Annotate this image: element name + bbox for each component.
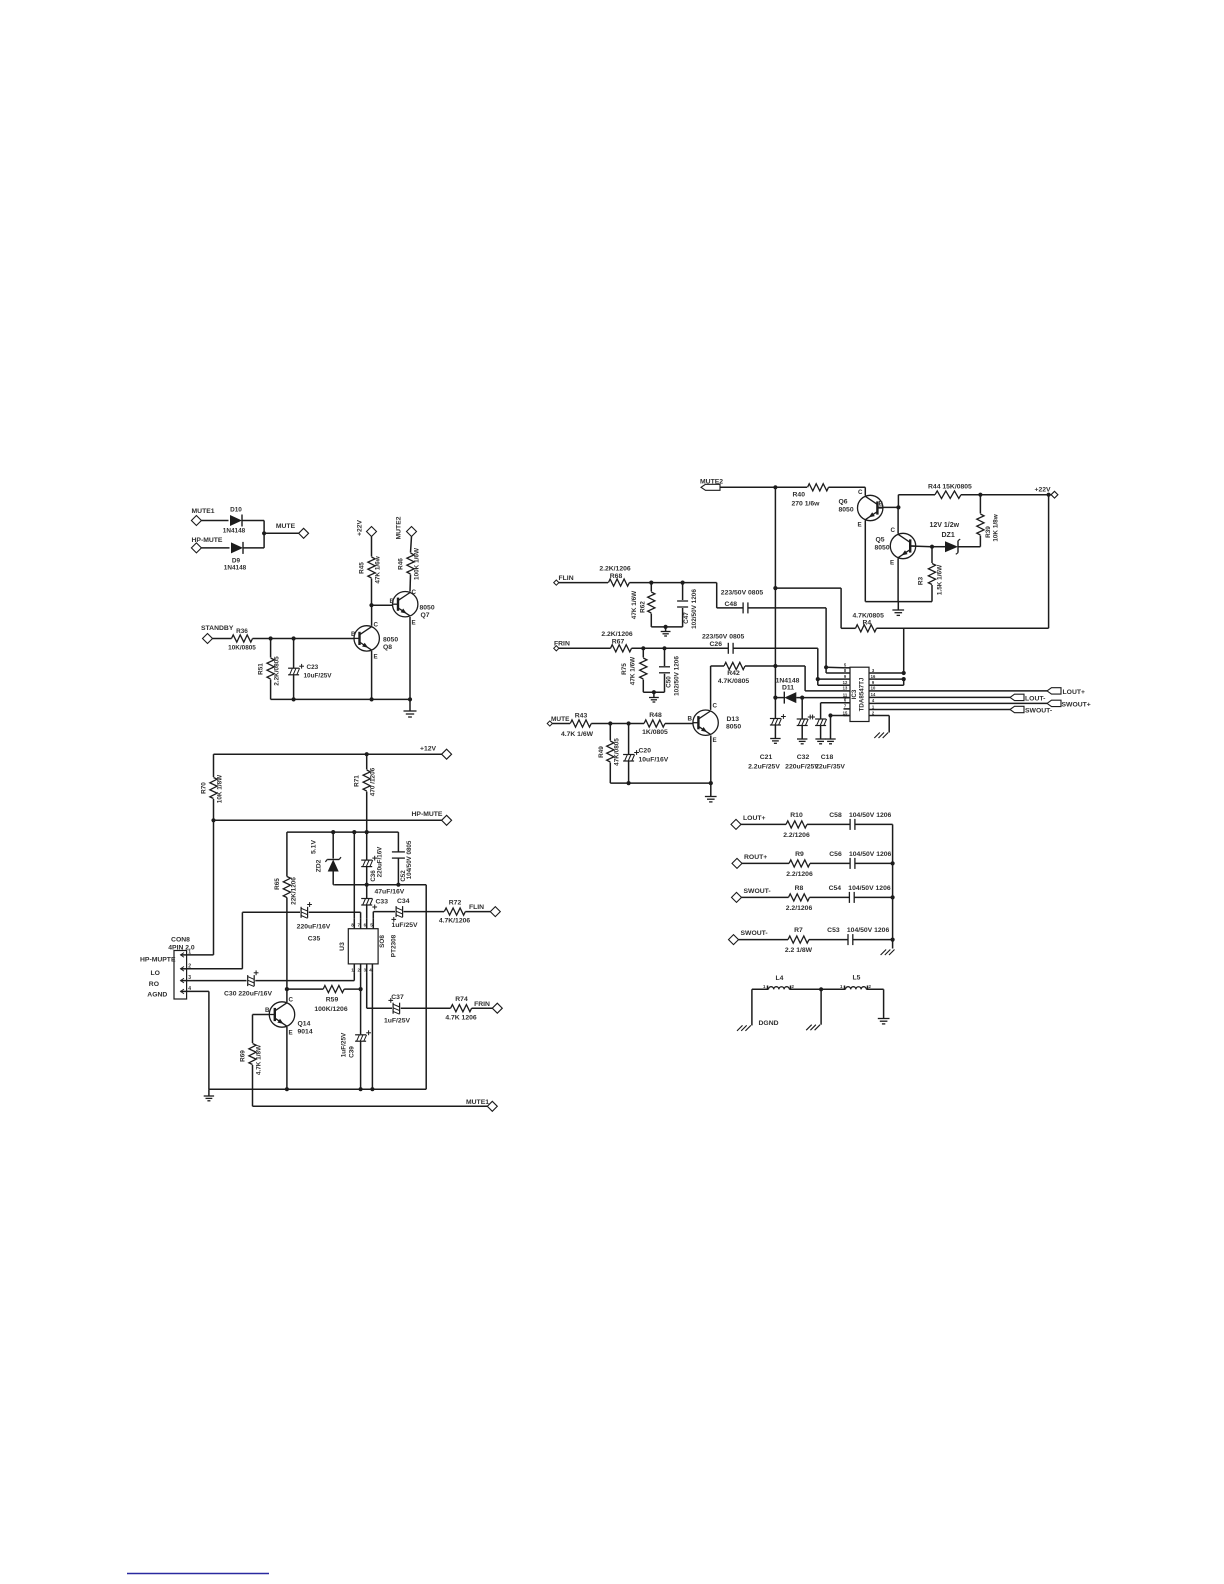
port FLIN (right sch) [554, 580, 559, 585]
pin label B (Q14) [265, 1007, 270, 1014]
svg-text:R71: R71 [354, 775, 361, 787]
pin stub U3 pin6 [366, 919, 368, 929]
svg-text:MUTE: MUTE [551, 716, 570, 723]
tag SWOUT+ [1047, 700, 1061, 706]
ground (C32) [797, 739, 807, 744]
pin number 9 (IC3 left) [844, 674, 847, 679]
label 220uF/16V (C35) [297, 924, 331, 931]
wire C33 to U3 pin6 [366, 905, 368, 919]
label R59 [326, 997, 339, 1004]
pin number 7 (IC3 left) [844, 704, 847, 709]
pin label C (Q14) [289, 997, 294, 1004]
inductor L5 [846, 987, 867, 990]
pin arrow CON8 pin4 [181, 989, 187, 994]
svg-text:C32: C32 [797, 754, 810, 761]
net label FRIN (right sch) [554, 641, 570, 648]
label C32 [797, 754, 810, 761]
capacitor C30 [248, 970, 259, 986]
svg-text:MUTE1: MUTE1 [466, 1099, 489, 1106]
wire ZD2 top lead [332, 832, 334, 858]
op-amp U3 (PT2308 SO8) [348, 929, 378, 964]
label 8050 (Q8) [383, 637, 398, 644]
label R69 [240, 1050, 247, 1062]
wire C54 to bus [854, 896, 892, 898]
svg-text:10uF/25V: 10uF/25V [304, 673, 333, 680]
pin stub U3 pin1 [353, 964, 355, 973]
junction R71/+12V rail [365, 752, 369, 756]
junction D11 cathode node [773, 696, 777, 700]
svg-text:47K 1/6w: 47K 1/6w [375, 556, 382, 583]
capacitor C33 [361, 899, 377, 910]
wire R42 left to Q13 collector [711, 666, 724, 710]
capacitor C53 [848, 934, 853, 945]
svg-text:C33: C33 [376, 899, 389, 906]
ground (L5 right) [878, 1019, 890, 1024]
footer blue rule [127, 1573, 269, 1575]
port ROUT+ (zobel) [732, 858, 742, 868]
pin label B (Q6) [879, 501, 884, 508]
label 100K/1206 (R59) [314, 1006, 347, 1013]
label C18 [821, 754, 834, 761]
svg-text:C30 220uF/16V: C30 220uF/16V [224, 990, 272, 997]
resistor R4 [856, 625, 877, 632]
wire FLIN row (C34 row) [373, 912, 444, 919]
svg-text:8050: 8050 [420, 605, 435, 612]
label 2.2/1206 (R9) [786, 871, 813, 878]
svg-text:C23: C23 [307, 664, 319, 671]
svg-text:C58: C58 [829, 812, 842, 819]
wire FLIN to R68 [559, 582, 608, 584]
wire R59 right lead [344, 988, 360, 990]
junction R51 top [269, 636, 273, 640]
label C52 [400, 870, 407, 882]
pin number 2 (L4) [792, 984, 795, 989]
wire R4 node riser [903, 628, 905, 673]
junction Q7 emitter/bus [408, 697, 412, 701]
wire R39 to DZ1 [958, 536, 980, 547]
label R36 [236, 628, 248, 635]
svg-text:104/50V 0805: 104/50V 0805 [406, 840, 413, 879]
svg-text:102/50V 1206: 102/50V 1206 [674, 656, 681, 696]
pin number 4 (CON8) [188, 986, 191, 992]
wire ROUT+ to R9 [742, 862, 789, 864]
svg-text:PT2308: PT2308 [391, 934, 398, 957]
ground (C21) [770, 739, 780, 744]
pin label B (Q8) [351, 631, 356, 638]
pin number 12 (IC3 left) [843, 680, 848, 685]
label 4PIN 2.0 [168, 945, 195, 952]
svg-text:R62: R62 [640, 601, 647, 613]
junction C39/bus [359, 1087, 363, 1091]
label 4.7K/1206 (R72) [439, 918, 471, 925]
svg-text:E: E [374, 654, 378, 661]
svg-text:E: E [289, 1030, 293, 1037]
junction pin15 node [828, 713, 832, 717]
svg-text:STANDBY: STANDBY [201, 625, 234, 632]
label 270 1/6w (R40) [792, 501, 821, 508]
resistor R68 [608, 579, 629, 586]
label C47 [683, 612, 690, 624]
transistor Q6 [858, 495, 883, 520]
wire R51 top lead [270, 639, 272, 658]
junction L4/L5 [819, 987, 823, 991]
svg-text:4.7K/0805: 4.7K/0805 [718, 678, 750, 685]
label 1uF/25V (C34) [392, 922, 419, 929]
port MUTE (right sch) [547, 721, 552, 726]
ground (FLIN filter) [661, 627, 671, 636]
pin label C (Q5) [891, 527, 896, 534]
label Q5 [876, 537, 885, 544]
pin number 7 (U3) [358, 923, 361, 928]
wire pin2 to C39 [360, 989, 362, 1034]
svg-text:MUTE: MUTE [276, 523, 296, 530]
wire C53 to bus [853, 939, 893, 941]
label C54 [829, 885, 842, 892]
label 4.7K 1/6W (R43) [561, 731, 594, 738]
wire Q13 gnd stem [710, 783, 712, 796]
resistor R43 [570, 720, 591, 727]
wire SWOUT- to R8 [742, 896, 789, 898]
wire R74 to FRIN [472, 1007, 493, 1009]
label 104/50V 1206 (C58) [849, 812, 892, 819]
label 2.2K/0805 (R51) [274, 656, 281, 686]
svg-text:22uF/35V: 22uF/35V [815, 764, 845, 771]
wire IC3 pin4 to SWOUT+ [876, 702, 1048, 704]
label R43 [575, 713, 588, 720]
wire MUTE1 row [253, 1105, 488, 1107]
label R46 [398, 558, 405, 570]
svg-text:2.2/1206: 2.2/1206 [786, 905, 813, 912]
wire IC3 right pin16 to R4 node [876, 678, 904, 680]
wire R44 left lead [898, 495, 935, 508]
svg-text:104/50V 1206: 104/50V 1206 [849, 812, 892, 819]
label R39 [985, 526, 992, 538]
junction R62 top [649, 581, 653, 585]
wire FRIN to R67 [559, 647, 611, 649]
wire R4 to +22V riser [877, 495, 1049, 629]
resistor R74 [451, 1005, 472, 1012]
net label MUTE2 (left) [396, 516, 403, 539]
junction ZD2/top rail [331, 830, 335, 834]
svg-text:100K/1206: 100K/1206 [314, 1006, 347, 1013]
junction pin4/bus [370, 1087, 374, 1091]
svg-text:R49: R49 [598, 746, 605, 758]
pin stub IC3 left 9 [844, 678, 851, 680]
pin number 10 (IC3 right) [871, 686, 876, 691]
label 104/50V 1206 (C54) [848, 885, 891, 892]
svg-text:E: E [412, 620, 416, 627]
capacitor C50 [659, 667, 670, 673]
wire D11 anode to IC3 [796, 697, 849, 699]
label R40 [793, 492, 806, 499]
wire IC3 pin1 to SWOUT- [876, 709, 1011, 711]
pin stub IC3 left 8 [844, 672, 851, 674]
net label LOUT+ (tag) [1063, 689, 1085, 696]
label 4.7K 1206 (R74) [445, 1015, 477, 1022]
pin number 3 (CON8) [188, 975, 191, 981]
wire IC3 right pin9 to R4 node [876, 679, 904, 685]
label U3 [339, 942, 346, 951]
wire IC3 left pin9 link [818, 678, 844, 680]
capacitor C34 [391, 906, 402, 922]
svg-text:C56: C56 [829, 851, 842, 858]
port SWOUT- (zobel) [729, 935, 739, 945]
label 102/50V 1206 (C50) [674, 656, 681, 696]
svg-text:10K 1/8W: 10K 1/8W [217, 774, 224, 803]
svg-text:C18: C18 [821, 754, 834, 761]
port SWOUT- (zobel) [732, 892, 742, 902]
resistor R71 [363, 770, 370, 791]
wire C47 bottom lead [682, 608, 684, 627]
junction C36 bottom/mid rail [365, 883, 369, 887]
svg-text:47K 1/6W: 47K 1/6W [631, 590, 638, 619]
junction C23 top [292, 636, 296, 640]
ground (zobel bus, chassis) [881, 950, 895, 956]
wire L4 left down [751, 989, 753, 1025]
label C35 [308, 936, 321, 943]
label 2.2/1206 (R10) [783, 832, 810, 839]
wire STANDBY to R36 [213, 638, 232, 640]
wire C23 bottom lead [293, 675, 295, 700]
wire Q6 emitter down [865, 521, 898, 602]
wire MUTE2 vertical to D11 [774, 666, 776, 698]
svg-text:8050: 8050 [839, 507, 854, 514]
label R4 [863, 620, 872, 627]
net label +22V (left) [357, 520, 364, 537]
wire C33 top lead [366, 885, 368, 899]
svg-text:22K/1206: 22K/1206 [291, 877, 298, 905]
zener ZD2 [325, 857, 341, 871]
label C23 [307, 664, 319, 671]
label R70 [201, 782, 208, 794]
wire C35 row [242, 912, 360, 918]
pin number 2 (IC3 right) [872, 710, 875, 715]
svg-text:C26: C26 [710, 641, 723, 648]
wire R69 to MUTE1 row [252, 1065, 254, 1106]
resistor R8 [789, 894, 810, 901]
wire L5 right lead [866, 986, 883, 990]
svg-text:B: B [390, 598, 395, 605]
net label +12V [420, 746, 437, 753]
label R10 [790, 812, 803, 819]
svg-text:2.2K/1206: 2.2K/1206 [599, 566, 631, 573]
svg-text:D11: D11 [782, 685, 794, 692]
pin stub IC3 left 13 [844, 690, 851, 692]
pin number 6 (IC3 left) [844, 698, 847, 703]
capacitor C58 [850, 819, 855, 830]
pin stub IC3 left 7 [844, 708, 851, 710]
pin stub IC3 right 9 [869, 684, 876, 686]
wire C21 top lead [774, 698, 776, 719]
wire U3 pin4 to bottom bus [371, 972, 373, 1089]
wire MUTE2 vertical [774, 487, 776, 666]
wire pin8 riser [353, 832, 355, 919]
svg-text:223/50V 0805: 223/50V 0805 [702, 634, 745, 641]
wire R8 to C54 [810, 896, 850, 898]
svg-text:C53: C53 [827, 927, 840, 934]
transistor Q13 (D13) [693, 710, 718, 735]
wire IC3 left pin8 link [826, 667, 843, 673]
connector CON8 [174, 951, 187, 1000]
label R3 [918, 576, 925, 585]
pin stub IC3 right 3 [869, 672, 876, 674]
svg-text:104/50V 1206: 104/50V 1206 [848, 885, 891, 892]
label 10K 1/8W (R70) [217, 774, 224, 803]
port MUTE1 [191, 516, 201, 526]
junction C48/IC3 pins 5-8 [824, 665, 828, 669]
wire bottom analog bus [209, 1088, 426, 1090]
svg-text:100K 1/6W: 100K 1/6W [414, 547, 421, 580]
port +12V [442, 749, 452, 759]
label 5.1V (ZD2) [311, 840, 318, 854]
svg-text:10uF/16V: 10uF/16V [639, 757, 669, 764]
svg-text:SO8: SO8 [379, 935, 386, 948]
svg-text:+22V: +22V [357, 520, 364, 537]
svg-text:470 /1206: 470 /1206 [370, 767, 377, 796]
svg-text:R72: R72 [449, 900, 462, 907]
label C20 [639, 748, 652, 755]
pin stub U3 pin8 [353, 919, 355, 929]
wire D10 to node [243, 521, 265, 534]
net label FLIN (right sch) [559, 575, 574, 582]
resistor R67 [611, 645, 632, 652]
svg-text:4.7K 1/6W: 4.7K 1/6W [561, 731, 594, 738]
capacitor C18 [810, 715, 826, 726]
label 104/50V 1206 (C53) [847, 927, 890, 934]
net label SWOUT- (zobel) [741, 930, 768, 937]
wire HP-MUTE rail [214, 819, 442, 821]
ground (FRIN filter) [649, 692, 659, 702]
junction Q14/bus [285, 1087, 289, 1091]
svg-text:C54: C54 [829, 885, 842, 892]
pin arrow CON8 pin2 [181, 967, 187, 972]
wire C36 bottom lead [366, 867, 368, 885]
junction C26/IC3 pin9 [816, 677, 820, 681]
pin number 1 (L5) [840, 984, 843, 989]
capacitor C26 [728, 643, 733, 654]
wire R67 to node [632, 647, 665, 649]
svg-text:TDA8547TJ: TDA8547TJ [859, 677, 866, 711]
junction SWOUT-/bus [891, 895, 895, 899]
svg-text:MUTE1: MUTE1 [192, 508, 215, 515]
svg-text:2.2uF/25V: 2.2uF/25V [748, 764, 780, 771]
port FRIN (right sch) [554, 646, 559, 651]
junction C23/bus [292, 697, 296, 701]
label C48 [725, 601, 738, 608]
resistor R72 [444, 908, 465, 915]
label 47K 1/6W (R75) [630, 656, 637, 685]
svg-text:1K/0805: 1K/0805 [642, 729, 668, 736]
svg-text:2.2 1/8W: 2.2 1/8W [785, 947, 813, 954]
junction C20/bus [627, 781, 631, 785]
svg-text:Q14: Q14 [298, 1021, 311, 1028]
junction C20 top [627, 721, 631, 725]
wire R9 to C56 [810, 862, 850, 864]
wire +22V to R45 [371, 537, 373, 557]
net label MUTE [276, 523, 296, 530]
wire C21 to ground [774, 725, 776, 739]
label 1K/0805 (R48) [642, 729, 668, 736]
wire L4 to junction [789, 986, 821, 990]
capacitor C32 [797, 715, 813, 726]
svg-text:C: C [713, 703, 718, 710]
svg-text:223/50V 0805: 223/50V 0805 [721, 590, 764, 597]
label 8050 (Q13) [726, 724, 741, 731]
wire IC3 left pin12 link [818, 679, 844, 685]
resistor R46 [407, 553, 414, 574]
svg-text:E: E [890, 560, 894, 567]
wire C30 to U3 pin1 [255, 972, 354, 980]
pin number 2 (U3) [358, 968, 361, 973]
wire R39 top lead [979, 495, 981, 514]
label 104/50V 0805 (C52) [406, 840, 413, 879]
pin number 15 (IC3 left) [843, 710, 848, 715]
junction MUTE2 vertical [773, 485, 777, 489]
wire Q6 base to node [878, 506, 899, 508]
pin number 1 (U3) [351, 968, 354, 973]
svg-text:8050: 8050 [875, 545, 890, 552]
pin number 13 (IC3 left) [843, 686, 848, 691]
resistor R9 [789, 860, 810, 867]
wire R62 bottom lead [651, 614, 682, 627]
wire R43 to node [591, 723, 644, 725]
label PT2308 (U3) [391, 934, 398, 957]
wire R71 top lead [366, 754, 368, 769]
label D10 [230, 507, 242, 514]
wire CON8 pin1 to HP-MUTE node [187, 820, 214, 955]
wire CON8 pin2 to C35 row [187, 912, 243, 969]
wire R72 to FLIN [465, 911, 490, 913]
svg-text:IC3: IC3 [851, 689, 858, 699]
label 22K/1206 (R65) [291, 877, 298, 905]
pin stub IC3 right 2 [869, 715, 876, 717]
pin stub IC3 left 5 [844, 667, 851, 669]
svg-text:LOUT-: LOUT- [1025, 695, 1045, 702]
diode D11 [784, 692, 796, 704]
svg-text:2.2/1206: 2.2/1206 [786, 871, 813, 878]
svg-text:LOUT+: LOUT+ [1063, 689, 1085, 696]
zener DZ1 [945, 539, 960, 554]
label 9014 (Q14) [298, 1029, 313, 1036]
svg-text:9014: 9014 [298, 1029, 313, 1036]
tag LOUT+ [1047, 688, 1061, 694]
wire L5 right down [883, 989, 885, 1018]
port MUTE [299, 528, 309, 538]
capacitor C35 [301, 902, 312, 918]
wire C20 top lead [628, 724, 630, 755]
svg-text:R44 15K/0805: R44 15K/0805 [928, 484, 972, 491]
wire MUTE2 to R40 [720, 486, 807, 488]
wire C50 bottom lead [664, 674, 666, 692]
label 1uF/25V (C39) [341, 1032, 348, 1057]
resistor R59 [323, 986, 344, 993]
svg-text:ROUT+: ROUT+ [744, 854, 767, 861]
svg-text:C35: C35 [308, 936, 321, 943]
pin number 2 (CON8) [188, 963, 191, 969]
junction +22V down [1047, 493, 1051, 497]
svg-text:1uF/25V: 1uF/25V [392, 922, 419, 929]
svg-text:SWOUT-: SWOUT- [744, 888, 771, 895]
svg-text:12: 12 [843, 680, 848, 685]
junction R75/C50 gnd [652, 690, 656, 694]
svg-text:R39: R39 [985, 526, 992, 538]
svg-text:R65: R65 [274, 878, 281, 890]
pin label HP-MUPTE (CON8) [140, 957, 176, 964]
label 2.2 1/8W (R7) [785, 947, 813, 954]
net label HP-MUTE [192, 537, 223, 544]
svg-text:1N4148: 1N4148 [776, 678, 800, 685]
transistor Q14 [269, 1002, 294, 1027]
